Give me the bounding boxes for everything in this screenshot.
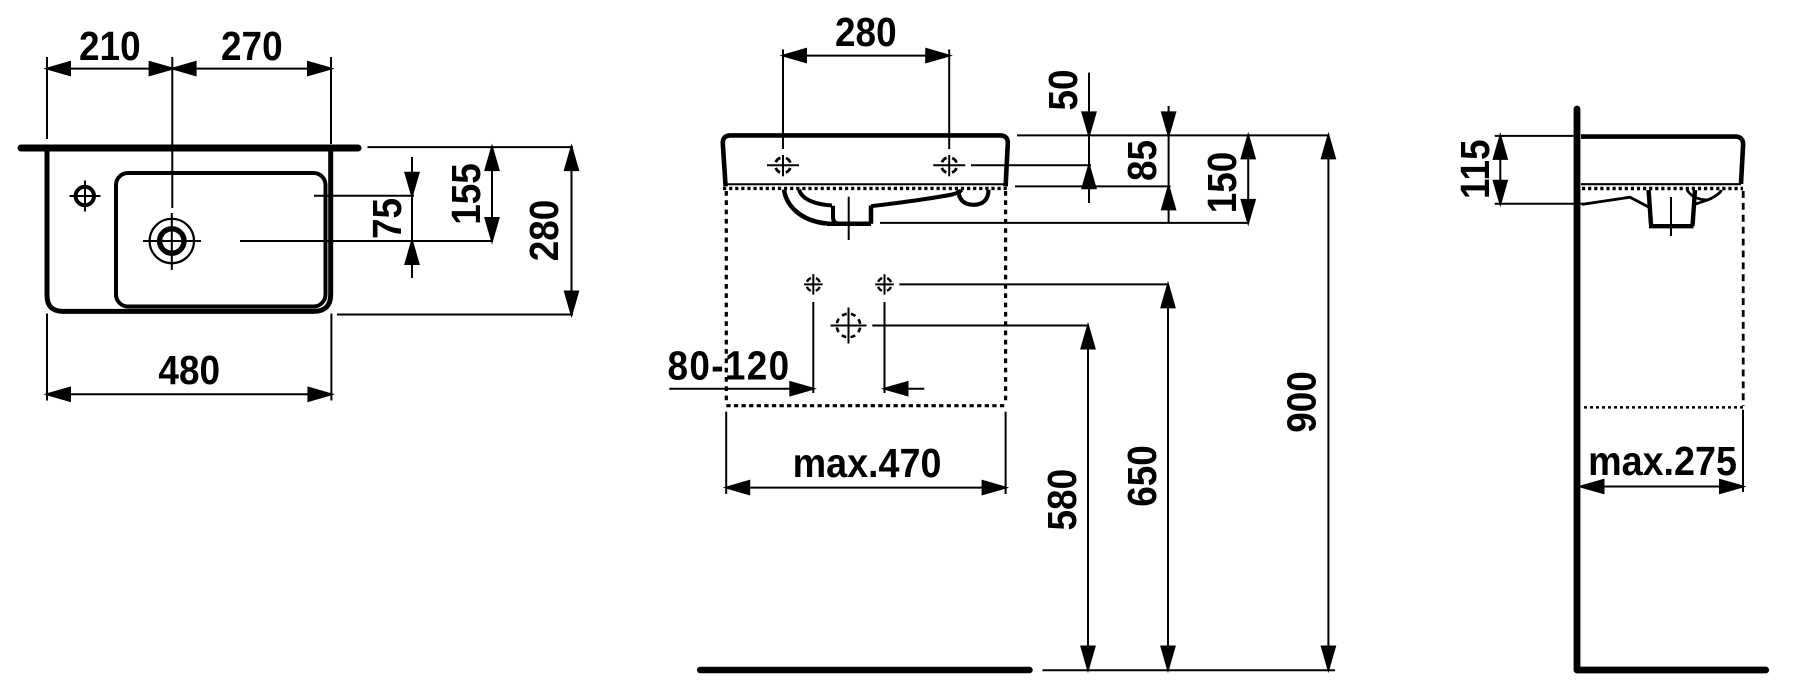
svg-text:50: 50 <box>1041 69 1086 110</box>
svg-text:480: 480 <box>158 348 220 393</box>
svg-text:max.470: max.470 <box>793 441 942 487</box>
svg-text:85: 85 <box>1120 140 1165 181</box>
svg-text:270: 270 <box>221 24 283 69</box>
svg-text:155: 155 <box>444 163 489 225</box>
svg-text:210: 210 <box>79 24 141 69</box>
svg-text:280: 280 <box>522 200 567 262</box>
svg-text:80-120: 80-120 <box>668 344 791 389</box>
svg-text:75: 75 <box>365 198 410 239</box>
svg-text:280: 280 <box>835 10 897 55</box>
svg-text:580: 580 <box>1040 469 1085 531</box>
svg-text:900: 900 <box>1280 371 1325 433</box>
svg-text:150: 150 <box>1200 152 1245 214</box>
svg-text:650: 650 <box>1120 445 1165 507</box>
svg-text:115: 115 <box>1453 139 1498 199</box>
svg-text:max.275: max.275 <box>1588 438 1737 484</box>
